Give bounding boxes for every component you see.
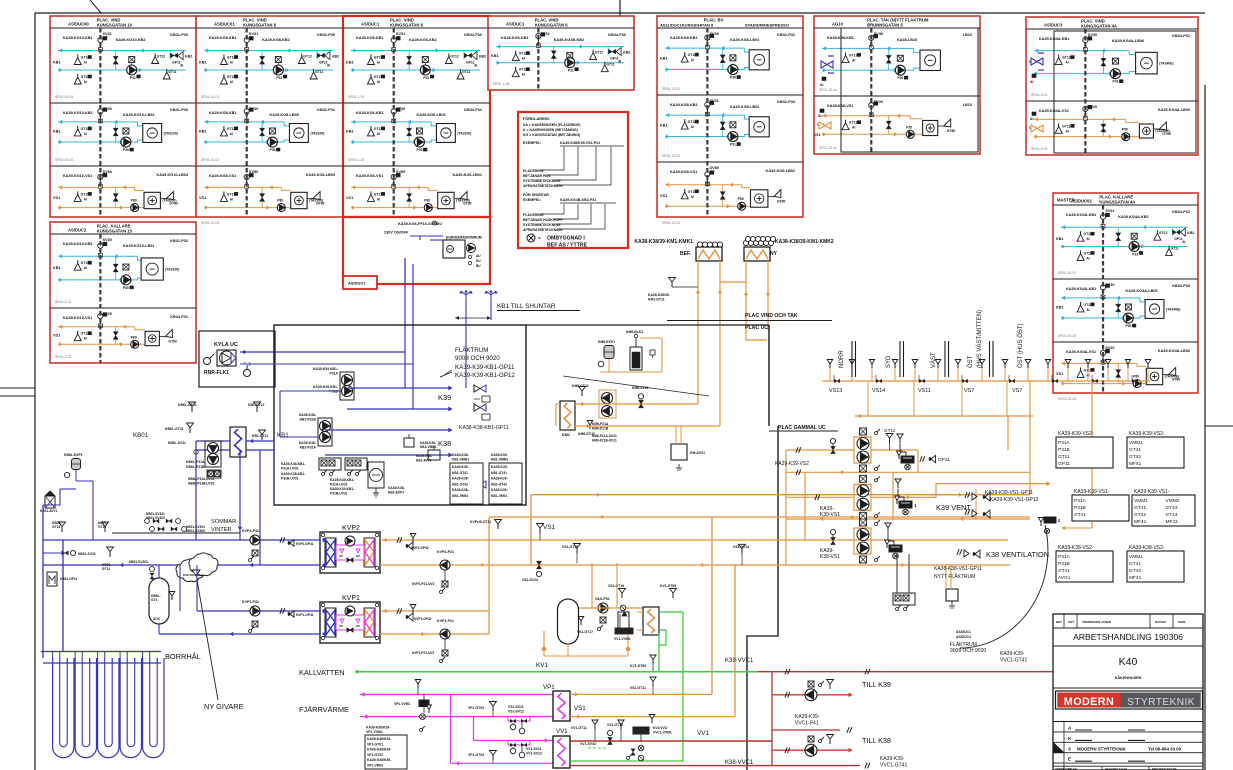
svg-text:P31B: P31B bbox=[1074, 505, 1086, 511]
node antenna KB1 left bbox=[460, 290, 473, 301]
svg-text:ÖST: ÖST bbox=[967, 355, 974, 368]
module U-G AS/DUC3 PLAC. VIND KUNGSGATAN 4A bbox=[1026, 17, 1198, 155]
component block UV31 switches group2 bbox=[330, 458, 367, 496]
svg-text:K40: K40 bbox=[1119, 656, 1138, 668]
wire VS1 supply right bbox=[871, 481, 1050, 499]
label KA39-K39-KB1-GP11 bbox=[455, 364, 515, 371]
svg-text:KVP1-GP41: KVP1-GP41 bbox=[296, 613, 314, 617]
svg-text:KALLVATTEN: KALLVATTEN bbox=[299, 668, 345, 677]
svg-text:KA39-K38-VS2-: KA39-K38-VS2- bbox=[1058, 545, 1094, 551]
wire K38 return bbox=[325, 453, 452, 457]
component KB01-AVV1 bbox=[40, 491, 58, 513]
unit KVP2 heat pump bbox=[320, 525, 380, 573]
frame KB1 plant room bbox=[274, 325, 526, 505]
svg-text:KA39-KG8-LB02: KA39-KG8-LB02 bbox=[730, 38, 759, 42]
wire KM return wrap bbox=[556, 404, 560, 426]
svg-text:KA39-K39-: KA39-K39- bbox=[795, 714, 820, 720]
svg-text:RNR-FLK1: RNR-FLK1 bbox=[204, 370, 229, 376]
valve KM6-SV31 bbox=[632, 386, 649, 408]
svg-text:KB1: KB1 bbox=[1056, 306, 1064, 310]
svg-text:KM6-GT41: KM6-GT41 bbox=[572, 384, 589, 388]
svg-text:KB1-GT41: KB1-GT41 bbox=[491, 471, 507, 475]
svg-text:KVP2-P21: KVP2-P21 bbox=[437, 550, 454, 554]
svg-text:AS/DUC3: AS/DUC3 bbox=[1044, 23, 1063, 28]
label OST HUS VAST bbox=[967, 310, 983, 368]
svg-text:SF01-10-xx: SF01-10-xx bbox=[819, 146, 837, 150]
wire antenna link bbox=[455, 316, 491, 319]
svg-text:SIGN: SIGN bbox=[1178, 620, 1185, 624]
wire antenna right drop bbox=[490, 301, 492, 320]
sensor VP1-GT04 bbox=[468, 751, 497, 764]
label K39 bbox=[438, 393, 451, 402]
wire VS1 tank bottom bbox=[542, 631, 630, 656]
svg-text:GT11: GT11 bbox=[1058, 568, 1070, 574]
component K38 drain bbox=[946, 565, 958, 608]
leader GP12 arrow bbox=[563, 376, 709, 396]
table KA39-K38-VS2 left bbox=[1056, 545, 1113, 582]
boundary line vertical PLAC UC bbox=[768, 325, 770, 426]
svg-text:(TA3100): (TA3100) bbox=[457, 131, 471, 135]
svg-text:PLACERING: PLACERING bbox=[523, 169, 544, 173]
label KA39-K39-KB1-GP12 bbox=[455, 372, 515, 379]
label KV1 bbox=[536, 662, 549, 669]
svg-text:GT11: GT11 bbox=[168, 70, 176, 74]
hx KB1 plate exchanger bbox=[230, 427, 246, 457]
svg-text:KA39-KG8-VS1: KA39-KG8-VS1 bbox=[209, 174, 236, 178]
svg-text:KM1-GT11: KM1-GT11 bbox=[648, 298, 665, 302]
svg-text:AI: AI bbox=[1086, 256, 1089, 260]
svg-text:TILL K38: TILL K38 bbox=[862, 736, 891, 745]
svg-text:GT13: GT13 bbox=[849, 53, 858, 57]
svg-text:KB1: KB1 bbox=[199, 130, 207, 134]
svg-text:FLÄKTRUM: FLÄKTRUM bbox=[455, 347, 488, 354]
svg-text:VMM1: VMM1 bbox=[1129, 554, 1143, 560]
label KA39-VVC1 texts bbox=[725, 658, 754, 664]
wire antenna left drop bbox=[465, 301, 467, 388]
wire KVP1 orange return bbox=[380, 632, 489, 636]
svg-text:KB34-P32: KB34-P32 bbox=[1172, 210, 1190, 214]
svg-text:KA39-KG8-KB1: KA39-KG8-KB1 bbox=[670, 103, 698, 107]
svg-text:9008 OCH 9020: 9008 OCH 9020 bbox=[455, 355, 500, 362]
valve module G vs inlet bbox=[1030, 112, 1043, 132]
svg-text:P30: P30 bbox=[730, 76, 736, 80]
sensor KB1-GT11 bbox=[252, 430, 268, 440]
svg-text:KA39-KG6-LB01: KA39-KG6-LB01 bbox=[453, 173, 482, 177]
wire VS main y565 bbox=[380, 563, 1010, 567]
svg-text:KUNGSGATAN 10: KUNGSGATAN 10 bbox=[97, 229, 133, 234]
svg-text:KVP2-P31: KVP2-P31 bbox=[242, 529, 259, 533]
svg-text:AU: AU bbox=[476, 254, 481, 258]
svg-text:KM-AVV1: KM-AVV1 bbox=[690, 451, 705, 455]
wire VS2 supply left bbox=[786, 447, 854, 453]
svg-text:P80: P80 bbox=[1122, 128, 1128, 132]
component VV1-VVM1 bbox=[614, 605, 633, 641]
svg-text:KB32-P33: KB32-P33 bbox=[777, 100, 795, 104]
svg-text:GT80: GT80 bbox=[947, 129, 956, 133]
svg-text:SV31: SV31 bbox=[103, 32, 112, 36]
label K39 VENT bbox=[936, 503, 971, 512]
wire riser into frame b bbox=[412, 364, 414, 409]
svg-text:(K)RISSMASKINRUM: (K)RISSMASKINRUM bbox=[446, 236, 482, 240]
wire VV1 right return red bbox=[570, 765, 860, 767]
svg-text:KA39-K38-: KA39-K38- bbox=[416, 454, 432, 458]
component K38 uv boxes bbox=[893, 593, 915, 611]
svg-text:KA39-KG4A-KB1: KA39-KG4A-KB1 bbox=[1066, 287, 1096, 291]
module U-F AG10 PLAC. TAK NYTT FLAKTRUM BRUNNSGATAN 5 bbox=[814, 16, 980, 154]
label VV1 line bbox=[697, 730, 710, 737]
svg-text:SR01-2-01: SR01-2-01 bbox=[55, 300, 72, 304]
svg-text:SR01-13-01: SR01-13-01 bbox=[662, 87, 680, 91]
hx KM1 bbox=[560, 401, 575, 437]
node KB1 vmm box bbox=[420, 441, 440, 460]
svg-text:K38: K38 bbox=[438, 439, 451, 448]
wire KB hx left bottom bbox=[196, 449, 230, 451]
heat exchanger KMK2 (NY) bbox=[743, 236, 833, 261]
svg-text:P31: P31 bbox=[276, 76, 282, 80]
wire KV to VVC right bbox=[660, 671, 758, 673]
svg-text:AI: AI bbox=[1030, 117, 1033, 121]
svg-text:DATUM: DATUM bbox=[1155, 620, 1166, 624]
valve VS1-SV24 bbox=[522, 561, 542, 582]
sensor VS1-GT16 bbox=[608, 584, 626, 598]
svg-text:KA39-K39-KB1-GP11: KA39-K39-KB1-GP11 bbox=[455, 364, 515, 371]
module U-E header text bbox=[660, 23, 789, 28]
wire VS riser 918 bbox=[917, 450, 919, 472]
svg-text:KB01-SV32: KB01-SV32 bbox=[78, 552, 96, 556]
svg-text:BETJÄNAR HUSKROPP: BETJÄNAR HUSKROPP bbox=[523, 218, 564, 222]
svg-text:KB31-P30: KB31-P30 bbox=[170, 108, 188, 112]
sensor KB01-GT14 bbox=[52, 521, 66, 532]
svg-text:KB1: KB1 bbox=[346, 130, 354, 134]
label FLAKTRUM 9008 bbox=[455, 347, 500, 362]
pump group KA39-K39-KB1-P31A/P31B bbox=[313, 367, 354, 400]
svg-text:TILL K39: TILL K39 bbox=[862, 680, 891, 689]
svg-text:KA39-K39-: KA39-K39- bbox=[491, 453, 508, 457]
svg-text:KM6-P21B-UV21: KM6-P21B-UV21 bbox=[592, 439, 617, 443]
frame module G inner bbox=[1054, 31, 1196, 153]
svg-text:AS/DUC01: AS/DUC01 bbox=[214, 22, 235, 27]
svg-text:AI: AI bbox=[618, 60, 621, 64]
valve KVP1-GP42 bbox=[397, 605, 432, 622]
svg-text:KA39-K38/K39-: KA39-K38/K39- bbox=[367, 737, 391, 741]
svg-text:EXEMPEL:: EXEMPEL: bbox=[523, 141, 541, 145]
svg-text:AS/DUC1: AS/DUC1 bbox=[506, 22, 525, 27]
svg-text:KA39-K39-KB1-: KA39-K39-KB1- bbox=[313, 385, 338, 389]
component expansion cloud KVP1/9-GT12 bbox=[176, 553, 218, 582]
svg-text:KA39-KG8-VS1: KA39-KG8-VS1 bbox=[670, 170, 697, 174]
pump group KB6L-P31A/P31B bbox=[186, 441, 221, 469]
pump VVC1-P41 K39 bbox=[805, 680, 834, 701]
svg-text:BRUNNSGATAN 5: BRUNNSGATAN 5 bbox=[867, 23, 903, 28]
wire VS riser 489 bbox=[488, 517, 490, 634]
svg-text:KB31-P32: KB31-P32 bbox=[170, 239, 188, 243]
wire VS1 tank top bbox=[579, 563, 643, 608]
svg-text:AI: AI bbox=[522, 73, 525, 77]
svg-text:GT42: GT42 bbox=[1134, 512, 1146, 518]
svg-text:VP1-GT01: VP1-GT01 bbox=[367, 742, 383, 746]
boundary line manifold left bbox=[768, 325, 770, 426]
svg-text:KA39-K39-VS1-GP11: KA39-K39-VS1-GP11 bbox=[985, 490, 1033, 496]
label AS/DUC1 arc bbox=[956, 630, 971, 639]
svg-text:MF42: MF42 bbox=[1166, 519, 1179, 525]
unit KVP1 heat pump bbox=[320, 595, 380, 643]
hx VV1 bbox=[553, 728, 570, 768]
svg-text:KVP1-P31: KVP1-P31 bbox=[242, 600, 259, 604]
sheet fold mark diagonal bbox=[90, 0, 101, 13]
wire KB riser 274 bbox=[273, 441, 275, 505]
svg-text:SR01-1-01: SR01-1-01 bbox=[348, 95, 365, 99]
svg-text:VVC1-GT41: VVC1-GT41 bbox=[1000, 658, 1027, 664]
svg-text:KB1-GT12: KB1-GT12 bbox=[248, 403, 265, 407]
svg-text:ÄNDRINGEN AVSER: ÄNDRINGEN AVSER bbox=[1082, 620, 1112, 624]
svg-text:KA39-KG8-KB1: KA39-KG8-KB1 bbox=[670, 36, 698, 40]
svg-text:VS1-GT14: VS1-GT14 bbox=[733, 545, 749, 549]
svg-text:KB1-GT11: KB1-GT11 bbox=[252, 434, 268, 438]
svg-text:KA39-KG10-LB04: KA39-KG10-LB04 bbox=[123, 113, 155, 117]
svg-text:VV1: VV1 bbox=[697, 730, 710, 737]
svg-text:NORR: NORR bbox=[839, 350, 845, 368]
svg-text:GT11: GT11 bbox=[1058, 454, 1070, 460]
label BORRHAL bbox=[165, 652, 201, 661]
sheet right border bbox=[1204, 85, 1206, 770]
svg-text:KB34-P30: KB34-P30 bbox=[608, 33, 626, 37]
svg-text:SV80: SV80 bbox=[710, 166, 719, 170]
svg-text:KM1: KM1 bbox=[562, 433, 570, 437]
svg-text:KB1: KB1 bbox=[53, 130, 61, 134]
svg-text:KA39-K39-: KA39-K39- bbox=[880, 756, 905, 762]
wire KMK2 left riser bbox=[744, 261, 767, 340]
svg-text:KA38-K38-VS1-GP11: KA38-K38-VS1-GP11 bbox=[934, 566, 982, 572]
svg-text:AI: AI bbox=[1030, 80, 1033, 84]
svg-text:AI: AI bbox=[84, 61, 87, 65]
svg-text:FÖR SHUNTAR: FÖR SHUNTAR bbox=[523, 192, 549, 197]
pump group KA39-K39-VS2 bbox=[775, 428, 880, 472]
wire VVC riser bbox=[758, 672, 772, 766]
svg-text:KVP2-P21-UV2: KVP2-P21-UV2 bbox=[412, 582, 435, 586]
wire KYLA UC supply blue bbox=[240, 350, 405, 354]
table KA39-K39-VS1 right bbox=[1132, 489, 1195, 526]
label VS13 bbox=[829, 388, 842, 394]
svg-text:1: 1 bbox=[914, 503, 917, 508]
wire KB hx right top bbox=[246, 439, 274, 443]
wire KYLA UC return lblue bbox=[240, 362, 413, 366]
wire VS2 return bbox=[786, 470, 1030, 476]
svg-text:GT42: GT42 bbox=[1129, 454, 1141, 460]
svg-text:KB1-EXP1: KB1-EXP1 bbox=[388, 491, 404, 495]
svg-text:KA39-KG8-LB05: KA39-KG8-LB05 bbox=[306, 173, 335, 177]
valve K38 SV bbox=[830, 529, 835, 544]
svg-text:KB01: KB01 bbox=[133, 432, 149, 439]
svg-text:Tel 08-664 33 00: Tel 08-664 33 00 bbox=[1148, 746, 1182, 751]
svg-text:KUNGSGATAN 6: KUNGSGATAN 6 bbox=[390, 23, 424, 28]
svg-text:AS/DUC2: AS/DUC2 bbox=[68, 228, 87, 233]
svg-text:KVP1-GP42: KVP1-GP42 bbox=[414, 617, 432, 621]
svg-text:SR01-1-02: SR01-1-02 bbox=[348, 158, 365, 162]
wire KM supply bbox=[575, 402, 698, 406]
svg-text:GT13: GT13 bbox=[98, 525, 106, 529]
svg-text:KB1-GT42: KB1-GT42 bbox=[452, 482, 468, 486]
svg-text:VS1-GT17: VS1-GT17 bbox=[577, 630, 593, 634]
svg-text:KB1-VMM1: KB1-VMM1 bbox=[452, 458, 469, 462]
svg-text:MODERN: MODERN bbox=[1064, 696, 1114, 708]
svg-text:VP1-VM01: VP1-VM01 bbox=[367, 764, 384, 768]
svg-text:KA39-K38/K39-: KA39-K38/K39- bbox=[366, 726, 390, 730]
pump group KA39-K38-VS1 bbox=[820, 519, 880, 563]
svg-text:KUNGSGATAN 4A: KUNGSGATAN 4A bbox=[1081, 24, 1117, 29]
wire TILL K39 bbox=[772, 692, 852, 698]
component block UV31 switches group1 bbox=[281, 458, 341, 481]
svg-text:(TA3100): (TA3100) bbox=[310, 131, 324, 135]
svg-text:KVPx/9-GT11: KVPx/9-GT11 bbox=[470, 520, 491, 524]
valve K39 VENT dampers bbox=[920, 489, 990, 519]
svg-text:MF41: MF41 bbox=[1134, 519, 1147, 525]
text list box KB1-VMM1 left bbox=[450, 453, 483, 504]
svg-text:SR01-01-03: SR01-01-03 bbox=[201, 221, 219, 225]
svg-text:KA38-K38-KB1-GP11: KA38-K38-KB1-GP11 bbox=[459, 425, 509, 431]
svg-text:KV1-GT60: KV1-GT60 bbox=[630, 664, 646, 668]
svg-text:SOMMAR: SOMMAR bbox=[211, 519, 236, 525]
svg-text:MF41: MF41 bbox=[1129, 575, 1142, 581]
sensor KV1-GT69 bbox=[660, 584, 677, 598]
svg-text:VVC1-VVM1: VVC1-VVM1 bbox=[653, 731, 672, 735]
svg-text:KA39-K38-: KA39-K38- bbox=[452, 465, 469, 469]
svg-text:KA39-K38/K39-: KA39-K38/K39- bbox=[367, 748, 391, 752]
svg-text:KA39-K38-: KA39-K38- bbox=[452, 488, 469, 492]
module U-C AS/DUC1 PLAC. VIND KUNGSGATAN 6 bbox=[343, 16, 490, 225]
svg-text:KV1/VV1/: KV1/VV1/ bbox=[653, 726, 668, 730]
svg-text:VV1-SV11: VV1-SV11 bbox=[526, 747, 542, 751]
svg-text:P80: P80 bbox=[131, 335, 137, 339]
svg-text:KB1-GT42: KB1-GT42 bbox=[491, 482, 507, 486]
svg-text:KB1: KB1 bbox=[491, 54, 499, 58]
svg-text:KA39-K39-VS2-: KA39-K39-VS2- bbox=[1058, 431, 1094, 437]
svg-text:KB32-P31: KB32-P31 bbox=[317, 108, 335, 112]
valve KB01-SV32 bbox=[43, 550, 96, 556]
svg-text:KA39-KG4A-KB1: KA39-KG4A-KB1 bbox=[1066, 213, 1096, 217]
svg-text:AI: AI bbox=[230, 197, 233, 201]
svg-text:VVC1-P41: VVC1-P41 bbox=[795, 721, 819, 727]
wire VS main y494 bbox=[531, 493, 1030, 497]
svg-text:VINTER: VINTER bbox=[211, 527, 232, 533]
label SYD bbox=[886, 355, 892, 368]
svg-text:AS/DUC3: AS/DUC3 bbox=[956, 635, 971, 639]
svg-text:KA39-KG4A-LB06: KA39-KG4A-LB06 bbox=[1126, 289, 1158, 293]
svg-text:AI: AI bbox=[377, 61, 380, 65]
svg-text:SYD: SYD bbox=[886, 355, 892, 368]
svg-text:KUNGSGATAN 4A: KUNGSGATAN 4A bbox=[1099, 200, 1135, 205]
svg-text:KB34-P33: KB34-P33 bbox=[1172, 284, 1190, 288]
wire riser C2-a bbox=[404, 258, 406, 352]
svg-text:AI: AI bbox=[377, 197, 380, 201]
svg-text:P31: P31 bbox=[730, 143, 736, 147]
svg-text:VS7: VS7 bbox=[964, 388, 974, 394]
svg-text:EXEMPEL:: EXEMPEL: bbox=[523, 198, 541, 202]
text list VP1 GT01 box bbox=[365, 726, 407, 770]
svg-text:GT42: GT42 bbox=[1129, 568, 1141, 574]
svg-text:KM6-P21A-UV21: KM6-P21A-UV21 bbox=[592, 434, 617, 438]
sensor KM1-GT11 flag bbox=[648, 278, 698, 302]
wire FJV return bbox=[360, 715, 556, 719]
valve module F vs inlet bbox=[814, 109, 831, 137]
svg-text:SV31: SV31 bbox=[249, 32, 258, 36]
svg-text:KB6L-EXP1: KB6L-EXP1 bbox=[64, 453, 83, 457]
svg-text:OMBYGGNAD I: OMBYGGNAD I bbox=[547, 236, 585, 242]
svg-text:VP1-GT02: VP1-GT02 bbox=[367, 753, 383, 757]
svg-text:VS1: VS1 bbox=[543, 524, 556, 531]
wire KB exp drop bbox=[43, 481, 93, 540]
valve K39 damper1 bbox=[474, 385, 490, 402]
svg-text:KVP2: KVP2 bbox=[342, 525, 360, 532]
svg-text:FJÄRRVÄRME: FJÄRRVÄRME bbox=[299, 705, 349, 714]
valve module G inlet bbox=[1030, 53, 1044, 84]
svg-text:KA39-KG10-LB01: KA39-KG10-LB01 bbox=[123, 244, 154, 248]
svg-text:AI: AI bbox=[84, 266, 87, 270]
svg-text:KVP1-P21: KVP1-P21 bbox=[437, 619, 454, 623]
svg-text:AS/DUC1: AS/DUC1 bbox=[956, 630, 971, 634]
svg-text:GT80: GT80 bbox=[168, 340, 177, 344]
svg-text:VS13: VS13 bbox=[829, 388, 842, 394]
svg-text:KUNGSGATAN 6: KUNGSGATAN 6 bbox=[535, 23, 569, 28]
wire VVC mid link bbox=[772, 727, 852, 733]
svg-text:KM6-P21B: KM6-P21B bbox=[592, 427, 609, 431]
svg-text:GT11: GT11 bbox=[606, 63, 614, 67]
svg-text:KB32-P30: KB32-P30 bbox=[317, 33, 335, 37]
svg-text:(TA3100): (TA3100) bbox=[165, 268, 179, 272]
logo MODERN STYRTEKNIK bbox=[1056, 691, 1203, 709]
svg-text:BU: BU bbox=[437, 222, 442, 226]
svg-text:P31A: P31A bbox=[1058, 440, 1071, 446]
svg-text:KA39-KG6-LB01: KA39-KG6-LB01 bbox=[417, 113, 446, 117]
sensor VS1-GT11b bbox=[630, 677, 656, 694]
svg-text:KA39-KG8-LB02: KA39-KG8-LB02 bbox=[730, 105, 759, 109]
svg-text:KUNGSGATAN 10: KUNGSGATAN 10 bbox=[97, 23, 133, 28]
label NYTT FLAKTRUM bbox=[934, 573, 975, 580]
svg-text:KA39-KG6-VS1: KA39-KG6-VS1 bbox=[356, 174, 383, 178]
svg-text:KA39-KG8-KB2: KA39-KG8-KB2 bbox=[262, 38, 290, 42]
label FLAKTRUM 2 bbox=[950, 641, 986, 654]
svg-text:GT41: GT41 bbox=[1129, 447, 1141, 453]
wire KVP1 orange supply bbox=[380, 609, 489, 613]
module U-B AS/DUC01 PLAC. VIND KUNGSGATAN 8 bbox=[196, 16, 343, 225]
component GP2 device right bbox=[1038, 517, 1092, 534]
svg-text:GT44: GT44 bbox=[1166, 512, 1178, 518]
component KM6-BLK1 bbox=[626, 330, 655, 370]
svg-text:SR01-13-03: SR01-13-03 bbox=[662, 221, 680, 225]
wire KMK1 left riser bbox=[696, 261, 700, 404]
svg-text:KB2: KB2 bbox=[479, 55, 486, 59]
sensor GT11 top bbox=[884, 428, 896, 450]
component GP device K38 bbox=[885, 523, 902, 559]
component KM-AVV1 bbox=[671, 426, 705, 470]
frame module F inner bbox=[841, 28, 978, 152]
svg-text:P31A: P31A bbox=[330, 372, 339, 376]
svg-text:KA39-K39-VS2: KA39-K39-VS2 bbox=[775, 461, 809, 467]
svg-text:ARBETSHANDLING 190306: ARBETSHANDLING 190306 bbox=[1073, 632, 1183, 642]
svg-text:KB1: KB1 bbox=[199, 60, 207, 64]
wire KMK1 right riser bbox=[718, 261, 722, 426]
svg-text:KB1-VM01: KB1-VM01 bbox=[491, 494, 507, 498]
hx VV1-VVX bbox=[637, 607, 659, 635]
svg-text:KA39-KG10-VS1: KA39-KG10-VS1 bbox=[63, 316, 92, 320]
valve VS2 SV bbox=[830, 438, 835, 453]
svg-text:GT12: GT12 bbox=[157, 55, 166, 59]
svg-text:VS14: VS14 bbox=[872, 388, 885, 394]
svg-text:(TA340E): (TA340E) bbox=[1166, 307, 1180, 311]
svg-text:VS11: VS11 bbox=[918, 388, 931, 394]
svg-text:PLAC UC: PLAC UC bbox=[745, 325, 768, 331]
svg-text:KA39-K39-: KA39-K39- bbox=[491, 477, 508, 481]
svg-text:AI: AI bbox=[1182, 240, 1185, 244]
